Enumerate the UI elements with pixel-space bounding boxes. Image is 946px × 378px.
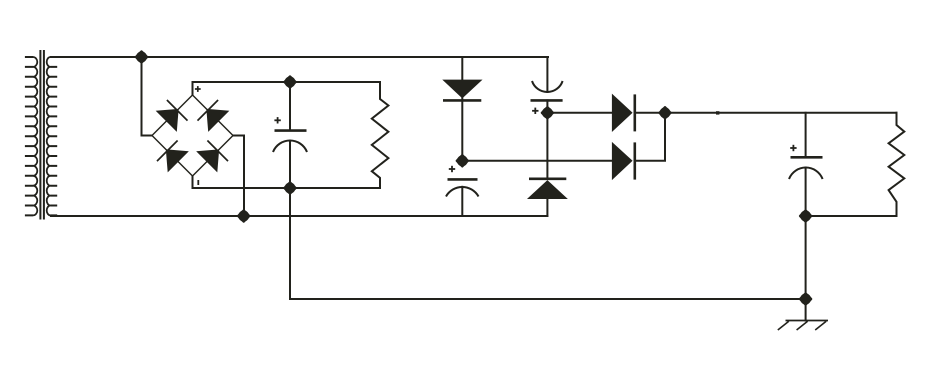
ground lead [805,299,807,321]
node: diode-OR output [658,106,672,120]
wire: bridge + rail y=82 to R1 top [193,81,381,83]
diode D7 cathode bar [633,94,636,131]
bridge + output stub and label [192,82,194,95]
resistor R1 (load across C1) [372,82,389,188]
capacitor C3 lead down to D6 [546,100,548,179]
wire: C3 node to D7 anode [547,112,612,114]
capacitor C1 positive lead [289,82,291,130]
node: bridge AC2 on bottom rail [236,209,250,223]
node: C4 bottom / output return [798,209,812,223]
ground hatch 3 [815,321,826,330]
ground hatch 2 [797,321,808,330]
capacitor C1 bottom lead [289,141,291,188]
diode D6 (pointing up) triangle [529,181,567,198]
capacitor C1 top plate [275,129,307,132]
wire: D8 cathode up to output node [636,113,665,161]
diode D8 (pointing right) triangle [613,143,632,179]
wire: secondary top lead to C3 top (top rail y=57) [51,56,548,58]
wire: C4 node down to ground node [805,216,807,299]
bridge diode D4 (bottom->right edge) [198,150,219,171]
wire: node A down to bridge AC1 corner [142,57,153,136]
transformer T1 secondary winding [51,57,58,215]
diode D6 anode lead to bottom rail [546,198,548,216]
node: C3 - / D7 anode / D6 cathode [540,106,554,120]
wire: C2 + node to D8 anode (mid rail y=160.8) [462,160,612,162]
capacitor C3 curved plate (flipped) [532,81,563,92]
capacitor C3 top lead from top rail [546,57,548,92]
wire: secondary bottom lead (bottom rail y=216) [51,215,547,217]
bridge diode D1 (left->top edge) [157,110,178,131]
ground symbol bar [786,320,829,322]
diode D5 cathode bar [443,99,481,102]
capacitor C4 top plate [791,156,823,159]
diode D5 lead from top rail [461,57,463,161]
capacitor C4 curved plate [789,167,823,179]
node: C1 top / + rail [283,75,297,89]
diode D8 cathode bar [633,142,636,179]
capacitor C2 top plate [448,178,478,181]
capacitor C2 bottom lead to bottom rail [461,187,463,216]
bridge diode D2 (right->top edge) [207,110,228,131]
bridge - output stub and label [192,176,194,188]
node A (junction on top rail) [134,50,148,64]
diode D6 cathode bar [529,178,566,181]
node: C1 bottom / - rail [283,181,297,195]
transformer T1 primary winding [25,57,33,215]
bridge rectifier BR1 diamond edges [152,95,193,136]
diode D5 (pointing down) triangle [444,80,481,97]
wire: bridge - rail y=188 to R1 bottom [193,187,381,189]
capacitor C2 curved plate [446,187,479,196]
capacitor C1 curved plate [273,140,307,152]
wire: output rail to R2 [665,112,897,114]
node: D5 cathode / C2 + [455,154,469,168]
wire: bridge AC2 corner to bottom rail [233,136,244,217]
node: ground junction [798,292,812,306]
capacitor C3 bottom plate [531,99,563,102]
diode D7 (pointing right) triangle [613,95,632,131]
bridge diode D3 (bottom->left edge) [167,150,188,171]
capacitor C4 top lead [805,113,807,157]
junction tick on output rail [716,111,719,114]
capacitor C4 bottom lead [805,168,807,217]
ground hatch 1 [778,321,789,330]
wire: D7 cathode to output node [636,112,665,114]
wire: R2 bottom to C4 node [806,215,897,217]
resistor R2 (output load) [889,113,905,216]
transformer T1 core [39,50,41,220]
wire: - rail return, C1 node down and across to ground [290,188,806,299]
